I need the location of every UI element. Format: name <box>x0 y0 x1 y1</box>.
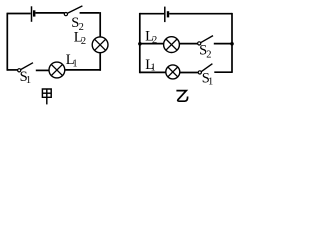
svg-text:1: 1 <box>151 63 156 74</box>
switch S2 pivot circle <box>64 13 67 16</box>
switch S1 pivot circle (right circuit) <box>198 71 201 74</box>
switch S1 blade (right circuit) <box>201 64 212 72</box>
wire: bottom wire, lamp L1 to switch S1 <box>180 72 199 74</box>
wire: middle branch, left edge to lamp L2 <box>140 43 163 45</box>
wire: top wire, corner to battery <box>7 13 30 15</box>
wire: right edge upper segment to lamp L2 <box>99 12 101 36</box>
junction dot right (middle branch) <box>230 42 234 46</box>
battery B2 long plate <box>164 7 166 23</box>
svg-text:2: 2 <box>152 35 157 46</box>
battery B1 short thick plate <box>33 10 35 16</box>
lamp L1 circle <box>49 62 65 78</box>
wire: bottom wire, switch S1 to right edge <box>214 71 232 73</box>
lamp L2 cross <box>95 39 106 50</box>
wire: bottom wire, lamp L1 to bottom-right corner <box>65 69 101 71</box>
wire: top wire, switch S2 to top-right corner <box>80 12 100 14</box>
wire: right edge lower segment, lamp L2 to bottom-right corner <box>99 53 101 71</box>
label 乙 (yi) drawn strokes <box>176 91 187 102</box>
switch S2 pivot circle (right circuit) <box>198 42 201 45</box>
wire: bottom wire, corner to switch S1 <box>7 69 17 71</box>
lamp L1 circle (right circuit) <box>166 65 180 79</box>
svg-text:1: 1 <box>26 75 31 86</box>
lamp L1 cross (right circuit) <box>168 67 178 77</box>
wire: bottom wire, switch S1 to lamp L1 <box>36 69 49 71</box>
switch S2 blade (right circuit) <box>201 36 213 43</box>
lamp L2 cross (right circuit) <box>166 39 177 50</box>
battery B1 long plate <box>31 6 33 21</box>
wire: bottom wire, left edge to lamp L1 <box>140 71 166 73</box>
battery B2 short thick plate <box>167 11 169 17</box>
wire: right edge <box>231 13 233 73</box>
wire: middle branch, switch S2 to right edge <box>214 43 232 45</box>
wire: top wire, corner to battery <box>140 13 164 15</box>
wire: left edge <box>6 13 8 71</box>
switch S1 blade <box>21 63 33 70</box>
svg-text:1: 1 <box>72 58 77 69</box>
switch S2 blade <box>67 6 82 13</box>
svg-text:1: 1 <box>208 76 213 87</box>
wire: left edge <box>139 13 141 73</box>
svg-text:2: 2 <box>206 49 211 60</box>
switch S1 pivot circle <box>18 69 21 72</box>
wire: top wire, battery to switch S2 <box>35 12 64 14</box>
label 甲 (jia) drawn strokes <box>42 89 51 104</box>
svg-text:2: 2 <box>81 36 86 47</box>
wire: top wire, battery to top-right corner <box>169 13 232 15</box>
lamp L2 circle <box>92 37 108 53</box>
lamp L2 circle (right circuit) <box>164 37 180 53</box>
junction dot left (middle branch) <box>138 42 142 46</box>
lamp L1 cross <box>51 64 62 75</box>
wire: middle branch, lamp L2 to switch S2 <box>180 43 198 45</box>
